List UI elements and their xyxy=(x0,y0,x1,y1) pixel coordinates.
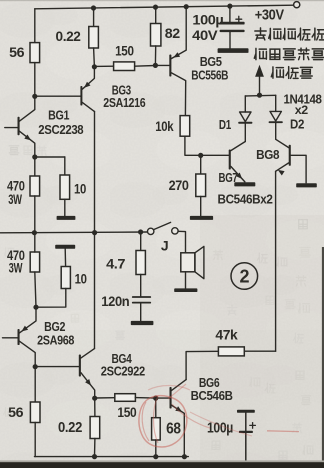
wire bottom rail xyxy=(35,456,189,458)
wire BG8 emitter to 47k xyxy=(244,350,275,352)
wire 270 to ground xyxy=(200,197,202,216)
label BG3 xyxy=(112,82,131,97)
wire down to R10 upper xyxy=(64,157,66,175)
svg-text:56: 56 xyxy=(9,44,25,60)
svg-text:4.7: 4.7 xyxy=(106,255,126,271)
label 10k xyxy=(155,118,173,134)
svg-text:BG1: BG1 xyxy=(48,108,69,123)
resistor 4.7 xyxy=(136,251,145,275)
label 150 (lower) xyxy=(117,404,137,420)
svg-text:BC546B: BC546B xyxy=(191,388,233,403)
wire base rail to BG7 xyxy=(201,154,229,156)
junction dot (10k / 270 / BG7 base) xyxy=(198,153,203,158)
label BG4 xyxy=(112,351,133,366)
wire 68 to bottom rail xyxy=(155,440,157,457)
svg-text:3W: 3W xyxy=(8,192,22,207)
wire BG4 emitter to 0.22 lower xyxy=(94,398,96,416)
svg-text:0.22: 0.22 xyxy=(58,419,82,436)
svg-text:270: 270 xyxy=(169,177,190,193)
junction dot (speaker branch on mid rail) xyxy=(138,229,143,234)
svg-text:D2: D2 xyxy=(290,117,304,132)
transistor BG8 (BC546B) xyxy=(276,139,307,183)
svg-text:x2: x2 xyxy=(295,103,309,117)
label 10 (lower) xyxy=(75,271,87,287)
label BG2 xyxy=(44,319,65,334)
wire output column (BG3 collector to BG4 collector) xyxy=(94,112,96,349)
svg-text:J: J xyxy=(161,237,168,253)
wire R470 lower to BG2 emitter node xyxy=(35,272,36,307)
wire 10k to base rail xyxy=(185,136,201,155)
wire node B to BG3 base xyxy=(35,95,81,97)
resistor 47k (horizontal) xyxy=(218,347,244,356)
svg-text:68: 68 xyxy=(166,420,181,437)
label 2SC2238 xyxy=(38,122,83,137)
label BG7 xyxy=(219,170,238,185)
wire R10 lower to BG2 emitter node xyxy=(36,289,66,308)
wire BG8 emitter down xyxy=(275,171,277,351)
transistor BG7 (BC546B) xyxy=(229,142,246,182)
wire 0.22 upper to node A xyxy=(93,48,96,67)
wire rail to 82 xyxy=(155,7,157,23)
label 100µ (bottom) xyxy=(207,419,233,436)
label D2 xyxy=(290,117,304,132)
label 270 xyxy=(169,177,190,193)
junction dot (BG2 collector / BG4 base / R56 lower) xyxy=(33,364,38,369)
wire 47k to BG6 collector xyxy=(186,351,218,379)
svg-text:2SC2238: 2SC2238 xyxy=(38,122,83,137)
resistor 470 3W (lower) xyxy=(30,252,39,272)
ground (270) xyxy=(190,216,213,220)
wire D1-D2 top link xyxy=(245,94,275,97)
svg-text:BG8: BG8 xyxy=(256,147,279,162)
wire BG2 node to R56 lower xyxy=(34,367,36,402)
svg-text:10: 10 xyxy=(74,180,86,196)
svg-text:BC556B: BC556B xyxy=(191,67,228,82)
resistor 82 xyxy=(151,24,161,47)
wire R10 upper to ground xyxy=(64,199,66,216)
wire node A to R150 upper xyxy=(94,65,113,67)
label BC556B xyxy=(191,67,228,82)
resistor 10 (lower) xyxy=(61,267,70,289)
transistor BG3 (2SA1216) xyxy=(80,67,94,112)
wire R150 upper to 82 node xyxy=(135,65,156,68)
junction dot node B (BG1 collector / BG3 base) xyxy=(32,94,37,99)
capacitor 100µ 40V (electrolytic) xyxy=(220,6,245,48)
wire BG2 collector node to BG4 base xyxy=(35,366,79,368)
resistor 0.22 (lower) xyxy=(90,417,100,439)
wire R470 upper to mid rail xyxy=(34,196,36,233)
ground (100µ cap) xyxy=(218,48,249,53)
wire BG1 emitter node to R470 upper xyxy=(34,157,36,176)
wire node to 270 xyxy=(200,155,202,174)
label 56 (lower) xyxy=(8,404,24,420)
junction dot (82 top on +30V rail) xyxy=(153,5,158,10)
label 0.22 (lower) xyxy=(58,419,82,436)
svg-text:10: 10 xyxy=(75,271,87,287)
wire ground to R10 lower xyxy=(64,249,66,267)
resistor 10k xyxy=(180,116,190,137)
svg-text:BC546Bx2: BC546Bx2 xyxy=(218,192,273,207)
red pen annotation (circle around 68/BG6) xyxy=(139,384,299,447)
resistor 68 xyxy=(152,418,161,440)
label BC546Bx2 xyxy=(218,192,273,207)
ground (BG7 emitter) xyxy=(234,182,255,186)
junction dot (0.22 lower on bottom rail) xyxy=(92,454,97,459)
wire node to BG6 base xyxy=(156,397,170,399)
capacitor 100µ (bottom, electrolytic) xyxy=(237,410,255,468)
label 1N4148 xyxy=(284,92,322,106)
svg-text:120n: 120n xyxy=(101,293,129,309)
wire R150 lower to 68 node xyxy=(135,397,155,400)
transistor BG2 (2SA968) xyxy=(3,307,37,367)
svg-text:2SC2922: 2SC2922 xyxy=(101,363,145,378)
wire +30V rail to R56 upper xyxy=(34,9,36,43)
svg-text:82: 82 xyxy=(165,25,181,41)
figure number 2 (circled) xyxy=(231,263,258,290)
wire mid rail to R470 lower xyxy=(34,233,36,252)
junction dot (68 on bottom rail) xyxy=(153,454,158,459)
wire R56 to node B xyxy=(34,63,36,97)
svg-text:2SA968: 2SA968 xyxy=(37,332,74,347)
label 56 (upper) xyxy=(9,44,25,60)
ground (speaker) xyxy=(174,288,197,292)
wire 82 to BG5 base node xyxy=(154,46,156,65)
transistor BG1 (2SC2238) xyxy=(5,96,35,157)
resistor 150 (lower, horizontal) xyxy=(115,394,136,402)
svg-text:2SA1216: 2SA1216 xyxy=(103,95,145,110)
label D1 xyxy=(219,117,231,132)
svg-text:150: 150 xyxy=(115,42,134,58)
wire to BG5 base xyxy=(155,64,169,66)
junction dot (BG1 emitter node) xyxy=(32,154,37,159)
switch J xyxy=(148,222,179,234)
svg-text:150: 150 xyxy=(117,404,137,420)
svg-text:100µ: 100µ xyxy=(192,11,223,27)
svg-text:47k: 47k xyxy=(215,326,238,342)
annotation 去喇叭保护继电器前置驱动器 (to speaker-protection relay pre-driver) xyxy=(254,28,324,79)
label BG5 xyxy=(200,54,222,69)
label 150 (upper) xyxy=(115,42,134,58)
transistor BG5 (BC556B) xyxy=(169,7,186,116)
resistor 150 (upper, horizontal) xyxy=(114,62,135,71)
label 0.22 (upper) xyxy=(56,28,82,44)
resistor 56 (lower) xyxy=(30,402,40,423)
label 4.7 xyxy=(106,255,126,271)
label 47k xyxy=(215,326,238,342)
arrow to relay driver (up) xyxy=(255,65,264,95)
resistor 0.22 (upper) xyxy=(89,27,99,49)
svg-text:40V: 40V xyxy=(192,27,218,43)
junction dot (output column on mid rail) xyxy=(92,230,97,235)
svg-text:10k: 10k xyxy=(155,118,173,134)
label 40V xyxy=(192,27,218,43)
label x2 xyxy=(295,103,309,117)
wire rail to 0.22 upper xyxy=(93,8,95,27)
ground (120n) xyxy=(131,321,154,325)
wire mid rail (output node) xyxy=(0,231,147,234)
label 120n xyxy=(101,293,129,309)
resistor 56 (upper left) xyxy=(30,43,40,63)
transistor BG4 (2SC2922) xyxy=(79,349,95,399)
wire +30V supply rail (top) xyxy=(35,5,294,9)
junction dot (82 / R150 / BG5 base) xyxy=(153,63,158,68)
label 10 (upper) xyxy=(74,180,86,196)
wire mid rail to 4.7 xyxy=(140,232,142,251)
label J xyxy=(161,237,168,253)
terminal +30V (open circle) xyxy=(294,2,300,8)
label 82 xyxy=(165,25,181,41)
label 3W (lower) xyxy=(9,260,23,275)
junction dot (BG6 emitter on bottom rail) xyxy=(182,454,187,459)
capacitor 120n xyxy=(132,296,151,321)
svg-text:D1: D1 xyxy=(219,117,231,132)
ground (R10 upper) xyxy=(57,216,76,220)
wire BG4 emitter to R150 lower xyxy=(95,397,115,399)
resistor 470 3W (upper) xyxy=(30,176,40,196)
label BG1 xyxy=(48,108,69,123)
resistor 10 (upper) xyxy=(60,175,70,199)
speaker xyxy=(181,246,204,288)
junction dot (100µ cap on +30V rail) xyxy=(227,4,232,9)
junction dot (BG4 emitter node) xyxy=(92,396,97,401)
resistor 270 xyxy=(196,174,206,197)
label 68 xyxy=(166,420,181,437)
label BG8 xyxy=(256,147,279,162)
ground (BG8 right) xyxy=(296,183,317,187)
label BC546B xyxy=(191,388,233,403)
label BG6 xyxy=(199,375,220,390)
wire 0.22 lower to bottom rail xyxy=(94,439,96,457)
svg-text:0.22: 0.22 xyxy=(56,28,82,44)
junction dot node A (0.22 / 150 / BG3 emitter) xyxy=(92,64,97,69)
label 3W (upper) xyxy=(8,192,22,207)
ground (R10 lower) xyxy=(55,245,75,249)
diode D2 (1N4148) xyxy=(269,95,283,139)
wire node to 68 xyxy=(155,398,157,418)
label 100µ xyxy=(192,11,223,27)
svg-text:2: 2 xyxy=(239,266,249,286)
label +30V xyxy=(255,8,285,24)
svg-text:3W: 3W xyxy=(9,260,23,275)
transistor BG6 (BC546B) xyxy=(170,380,187,457)
svg-text:+30V: +30V xyxy=(255,8,285,24)
diode D1 (1N4148) xyxy=(238,96,252,142)
junction dot (BG5 emitter on +30V rail) xyxy=(184,4,189,9)
label 470 (upper) xyxy=(7,179,25,194)
label 2SA1216 xyxy=(103,95,145,110)
junction dot (R150 lower / 68 / BG6 base) xyxy=(153,396,158,401)
wire switch to speaker xyxy=(178,231,185,253)
wire 4.7 to 120n xyxy=(140,275,142,297)
label 2SA968 xyxy=(37,332,74,347)
wire BG1 emitter node to R10 upper xyxy=(35,156,65,158)
label 470 (lower) xyxy=(7,248,25,263)
wire R56 lower to bottom rail xyxy=(34,423,36,457)
junction dot (arrow / D1 / D2) xyxy=(257,93,262,98)
junction dot (0.22 top on +30V rail) xyxy=(91,5,96,10)
junction dot (470s on mid rail) xyxy=(32,230,37,235)
junction dot (BG2 emitter node) xyxy=(33,305,38,310)
label 2SC2922 xyxy=(101,363,145,378)
